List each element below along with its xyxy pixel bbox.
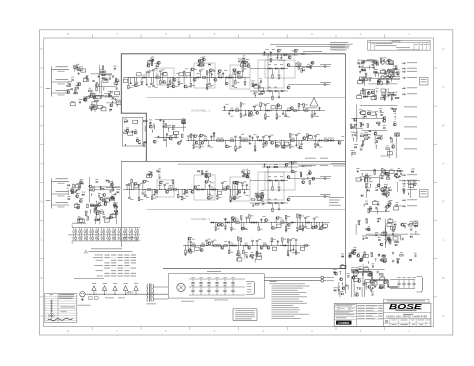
svg-text:B: B	[41, 276, 43, 280]
wire	[240, 111, 242, 114]
value label	[223, 276, 226, 279]
value label	[58, 206, 65, 209]
small box	[116, 101, 121, 104]
transistor Q	[367, 92, 370, 95]
value label	[259, 77, 262, 80]
wire	[166, 134, 168, 147]
small box	[174, 131, 179, 134]
capacitor C	[391, 97, 393, 100]
value label	[236, 180, 239, 183]
resistor R	[298, 66, 299, 70]
value label	[259, 105, 262, 108]
value label	[146, 180, 149, 183]
small box	[361, 112, 366, 115]
value label	[404, 222, 407, 225]
capacitor C	[74, 91, 76, 94]
wire	[277, 241, 279, 245]
ground	[230, 229, 232, 230]
resistor R	[380, 59, 381, 63]
ground	[114, 193, 116, 194]
transistor Q	[134, 84, 137, 87]
diode pair	[101, 237, 103, 239]
wire	[366, 179, 368, 182]
wire	[76, 190, 78, 193]
value label	[341, 290, 344, 293]
transistor Q	[287, 176, 290, 179]
value label	[318, 228, 321, 231]
resistor R	[250, 255, 254, 256]
wire	[248, 176, 250, 179]
resistor R	[100, 71, 104, 72]
value label	[273, 238, 276, 241]
value label	[169, 184, 172, 187]
ground	[245, 113, 247, 114]
value label	[242, 55, 245, 58]
value label	[362, 109, 366, 112]
diode D	[331, 139, 333, 141]
wire	[356, 288, 358, 290]
transistor Q	[390, 76, 393, 79]
value label	[421, 190, 427, 193]
transistor Q	[367, 112, 370, 115]
wire	[351, 135, 353, 137]
value label	[331, 162, 345, 165]
transistor Q	[312, 177, 315, 180]
value label	[146, 196, 149, 199]
value label	[223, 180, 226, 183]
capacitor C	[244, 80, 247, 82]
value label	[266, 102, 269, 105]
diode D	[267, 109, 269, 111]
ground	[244, 191, 246, 192]
diode D	[267, 166, 269, 168]
wire	[237, 258, 239, 261]
value label	[89, 186, 92, 189]
value label	[158, 174, 160, 177]
capacitor C	[372, 265, 374, 268]
value label	[360, 176, 362, 179]
wire	[302, 223, 304, 226]
wire	[187, 246, 189, 249]
wire	[298, 53, 312, 55]
capacitor C	[313, 217, 316, 219]
wire	[199, 246, 201, 249]
wire	[149, 174, 151, 177]
capacitor C	[375, 234, 377, 237]
value label	[251, 251, 254, 254]
value label	[200, 56, 203, 59]
value label	[292, 171, 295, 174]
value label	[391, 91, 394, 94]
ground	[390, 137, 392, 138]
value label	[300, 171, 302, 174]
fuse F	[104, 291, 106, 295]
resistor R	[75, 88, 79, 89]
wire	[356, 104, 358, 142]
value label	[334, 286, 338, 289]
ground	[295, 144, 297, 145]
wire	[106, 187, 121, 189]
small box	[76, 185, 81, 188]
small box	[92, 102, 97, 105]
capacitor C	[376, 137, 378, 140]
ground	[392, 252, 394, 253]
diode D	[275, 67, 277, 69]
value label	[241, 184, 244, 187]
capacitor C	[105, 95, 108, 97]
ground	[282, 113, 284, 114]
value label	[331, 137, 334, 140]
capacitor C	[202, 172, 205, 174]
diode D	[395, 68, 397, 70]
wire	[295, 141, 297, 146]
value label	[287, 215, 290, 218]
value label	[407, 76, 417, 79]
value label	[255, 251, 258, 254]
transformer T1	[149, 284, 151, 302]
value label	[124, 118, 127, 121]
transistor Q	[143, 180, 146, 183]
wire	[151, 131, 153, 133]
wire	[116, 105, 118, 107]
ground	[358, 65, 360, 66]
value label	[134, 129, 137, 132]
channel 1 feedback network box	[122, 118, 143, 147]
value label	[306, 215, 309, 218]
small box	[382, 232, 387, 235]
value label	[114, 203, 116, 206]
wire	[299, 223, 301, 226]
resistor R	[265, 114, 266, 118]
wire	[99, 65, 101, 93]
stage outline U2	[194, 63, 215, 88]
fuse rating table	[84, 250, 87, 253]
value label	[151, 56, 154, 59]
capacitor C	[231, 289, 234, 291]
wire	[89, 177, 91, 203]
transistor Q	[126, 129, 129, 132]
ground	[185, 253, 187, 254]
wire	[271, 223, 273, 227]
wire	[264, 52, 266, 55]
diode D	[354, 124, 356, 126]
wire	[91, 194, 93, 196]
ground	[270, 51, 272, 52]
value label	[283, 238, 286, 241]
value label	[208, 180, 211, 183]
capacitor C	[191, 289, 194, 291]
wire	[384, 219, 386, 230]
wire	[244, 190, 246, 193]
diode D	[152, 59, 154, 61]
resistor R	[156, 77, 160, 78]
wire	[380, 155, 388, 157]
value label	[407, 173, 417, 176]
resistor R	[364, 138, 368, 139]
resistor R	[201, 171, 202, 175]
value label	[374, 71, 378, 74]
capacitor C	[141, 80, 144, 82]
resistor R	[90, 204, 94, 205]
svg-text:D: D	[41, 200, 43, 204]
diode D	[396, 173, 398, 175]
wire	[387, 88, 389, 98]
value label	[80, 217, 83, 220]
svg-text:A: A	[443, 314, 445, 318]
wire	[146, 209, 345, 211]
value label	[71, 100, 75, 103]
diode D	[354, 146, 356, 148]
resistor R	[87, 217, 88, 221]
wire	[362, 117, 364, 119]
value label	[149, 119, 152, 122]
vertical feed	[267, 167, 269, 204]
value label	[230, 107, 233, 110]
value label	[79, 197, 83, 200]
diode D	[201, 188, 203, 190]
value label	[391, 69, 393, 72]
value label	[82, 191, 86, 194]
capacitor C	[242, 171, 244, 174]
ground	[370, 207, 372, 208]
capacitor C	[91, 106, 94, 108]
value label	[371, 284, 375, 287]
transistor Q	[388, 239, 391, 242]
table header text	[59, 293, 75, 296]
notes text	[330, 41, 348, 44]
value label	[260, 192, 263, 195]
wire	[415, 232, 417, 235]
small box	[372, 282, 377, 285]
value label	[396, 257, 400, 260]
wire	[221, 184, 223, 189]
connector pin	[324, 83, 326, 85]
value label	[280, 63, 283, 66]
capacitor C	[128, 183, 131, 185]
transistor Q	[113, 204, 116, 207]
small box	[74, 204, 79, 207]
capacitor C	[259, 198, 261, 201]
transistor Q	[147, 64, 150, 67]
wire	[90, 210, 92, 214]
resistor R	[72, 191, 76, 192]
wire	[385, 228, 387, 237]
resistor R	[74, 67, 78, 68]
value label	[388, 221, 391, 224]
wire	[257, 138, 259, 141]
ground	[249, 142, 251, 143]
value label	[245, 228, 248, 231]
value label	[246, 168, 248, 171]
capacitor C	[192, 144, 195, 146]
small box	[148, 61, 153, 64]
value label	[373, 279, 377, 282]
ground	[318, 107, 320, 108]
resistor R	[397, 170, 401, 171]
wire	[100, 74, 112, 76]
diode D	[395, 244, 397, 246]
transistor Q	[393, 123, 396, 126]
value label	[211, 195, 214, 198]
transistor Q	[205, 175, 208, 178]
diode D	[275, 202, 277, 204]
small box	[357, 96, 362, 99]
diode D	[288, 109, 290, 111]
diode D	[320, 139, 322, 141]
value label	[213, 69, 216, 72]
capacitor C	[396, 204, 399, 206]
diode D	[269, 90, 271, 92]
wire	[271, 242, 273, 246]
small box	[92, 107, 97, 110]
diode D	[291, 221, 293, 223]
capacitor C	[230, 226, 233, 228]
resistor R	[201, 245, 205, 246]
value label	[385, 206, 389, 209]
transistor Q	[110, 104, 113, 107]
value label	[320, 81, 331, 84]
ground	[260, 218, 262, 219]
wire	[216, 190, 218, 196]
wire	[77, 67, 79, 71]
wire	[158, 184, 160, 189]
small box	[371, 112, 376, 115]
value label	[109, 214, 113, 217]
value label	[365, 182, 368, 185]
resistor R	[352, 126, 356, 127]
wire	[232, 72, 234, 78]
value label	[239, 237, 242, 240]
transistor Q	[302, 181, 305, 184]
capacitor C	[394, 93, 397, 95]
wire	[237, 241, 239, 246]
value label	[201, 145, 204, 148]
resistor R	[73, 184, 74, 188]
value label	[376, 134, 380, 137]
value label	[387, 70, 390, 73]
value label	[79, 66, 83, 69]
wire	[88, 95, 103, 97]
diode D	[242, 60, 244, 62]
value label	[247, 170, 250, 173]
wire	[310, 66, 312, 69]
wire	[52, 180, 69, 182]
capacitor C	[253, 105, 256, 107]
resistor R	[257, 194, 258, 198]
resistor R	[182, 122, 186, 123]
transistor Q	[265, 141, 268, 144]
wire	[177, 190, 179, 194]
value label	[128, 182, 131, 185]
value label	[374, 68, 376, 71]
small box	[115, 92, 120, 95]
ground	[264, 51, 266, 52]
resistor R	[258, 227, 259, 231]
value label	[313, 115, 316, 118]
resistor R	[147, 189, 151, 190]
wire	[241, 185, 243, 190]
value label	[78, 184, 81, 187]
wire	[352, 138, 354, 141]
small box	[111, 214, 116, 217]
value label	[256, 192, 258, 195]
value label	[242, 228, 245, 231]
svg-text:A: A	[41, 161, 43, 165]
resistor R	[282, 238, 283, 242]
value label	[161, 81, 164, 84]
transistor Q	[388, 203, 391, 206]
ground	[146, 83, 148, 84]
transistor Q	[235, 181, 238, 184]
value label	[287, 227, 290, 230]
diode D	[284, 54, 286, 56]
transistor Q	[335, 272, 338, 275]
transistor Q	[248, 246, 251, 249]
channel 2 board outline	[120, 161, 122, 247]
resistor R	[366, 184, 367, 188]
value label	[162, 123, 165, 126]
transistor Q	[265, 219, 268, 222]
capacitor C	[215, 226, 218, 228]
wire	[206, 75, 208, 78]
resistor R	[100, 212, 104, 213]
value label	[135, 85, 138, 88]
value label	[246, 194, 249, 197]
resistor R	[202, 77, 206, 78]
transistor Q	[83, 98, 86, 101]
transistor Q	[79, 200, 82, 203]
capacitor C	[164, 183, 167, 185]
transistor Q	[185, 190, 188, 193]
value label	[374, 130, 377, 133]
capacitor C	[158, 170, 161, 172]
wire	[276, 107, 278, 111]
transistor Q	[241, 227, 244, 230]
transistor Q	[377, 184, 380, 187]
capacitor C	[98, 195, 100, 198]
wire	[370, 184, 372, 188]
wire	[274, 141, 276, 145]
wire	[52, 193, 69, 195]
diode pair	[118, 231, 120, 233]
wire	[208, 178, 210, 181]
small box	[103, 79, 108, 82]
resistor R	[362, 89, 363, 93]
diode D	[361, 195, 363, 197]
approval stamps	[48, 315, 50, 317]
diode D	[396, 176, 398, 178]
transistor Q	[303, 137, 306, 140]
value label	[278, 115, 281, 118]
value label	[104, 77, 107, 80]
value label	[198, 135, 201, 138]
value label	[85, 210, 88, 213]
value label	[414, 222, 417, 225]
resistor R	[241, 216, 242, 220]
transistor Q	[261, 196, 264, 199]
diode D	[334, 289, 336, 291]
value label	[148, 70, 151, 73]
output terminal labels	[402, 62, 406, 64]
capacitor C	[391, 107, 394, 109]
value label	[192, 67, 195, 70]
wire	[228, 242, 230, 246]
stage outline U7	[230, 177, 250, 201]
value label	[396, 258, 399, 261]
wire	[369, 210, 390, 212]
resistor R	[91, 94, 92, 98]
wire	[110, 185, 112, 187]
